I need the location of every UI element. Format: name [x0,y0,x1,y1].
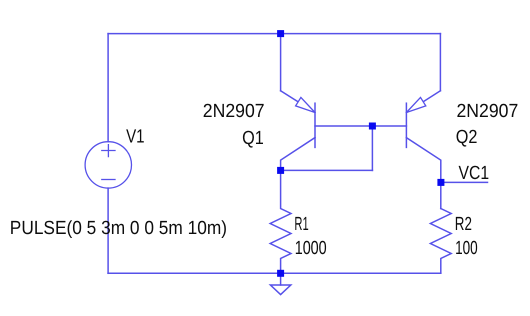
wire VC1 stub [441,181,488,183]
transistor Q1 base bar [314,103,316,147]
wire top rail [108,33,440,35]
wire left vertical (V1 top lead) [107,34,109,142]
node base junction [369,123,376,130]
node VC1 [437,179,444,186]
wire left vertical (V1 bottom lead) [107,188,109,273]
V1 minus sign [102,179,115,181]
ground stub [280,273,282,285]
transistor Q1 emitter diagonal [281,91,315,113]
svg-text:2N2907: 2N2907 [203,101,265,122]
Q2 emitter arrow [406,97,425,112]
node top rail junction [277,30,284,37]
transistor Q2 emitter wire [439,34,441,91]
svg-text:R2: R2 [455,214,472,235]
voltage source V1 [85,142,131,188]
wire base lead Q1-Q2 [315,125,406,127]
wire base junction down [371,126,373,170]
transistor Q2 base bar [405,103,407,147]
transistor Q2 collector diagonal [406,138,440,209]
ground symbol [270,285,290,295]
transistor Q2 emitter diagonal [406,91,440,113]
svg-text:100: 100 [455,238,478,259]
Q1 emitter arrow [296,97,315,112]
svg-text:VC1: VC1 [459,163,490,184]
transistor Q1 collector diagonal [281,138,315,171]
svg-text:PULSE(0 5 3m 0 0 5m 10m): PULSE(0 5 3m 0 0 5m 10m) [10,218,227,239]
node collector R1 junction [277,167,284,174]
transistor Q1 emitter wire [280,34,282,91]
resistor R2 [430,209,451,274]
svg-text:2N2907: 2N2907 [457,101,519,122]
node ground junction [277,270,284,277]
resistor R1 [270,170,291,273]
svg-text:1000: 1000 [295,238,327,259]
wire bottom rail [108,272,441,274]
svg-text:Q1: Q1 [242,128,264,149]
V1 plus sign [102,145,115,157]
wire collector-base tie [281,169,373,171]
svg-text:R1: R1 [294,214,308,235]
svg-text:V1: V1 [126,127,145,148]
svg-text:Q2: Q2 [456,127,478,148]
